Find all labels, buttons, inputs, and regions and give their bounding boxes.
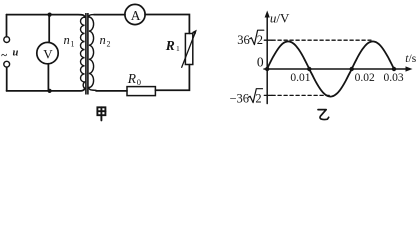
svg-text:0: 0 bbox=[137, 77, 141, 87]
wire primary left bottom bbox=[6, 67, 8, 91]
wire primary left top bbox=[6, 15, 8, 37]
svg-text:1: 1 bbox=[71, 39, 75, 48]
label -36sqrt2 bbox=[230, 89, 263, 106]
wire right side lower bbox=[155, 65, 189, 91]
wire voltmeter lower bbox=[47, 64, 49, 91]
svg-text:0.03: 0.03 bbox=[384, 72, 404, 84]
label yi (figure 2) bbox=[318, 110, 329, 120]
resistor R0 bbox=[127, 87, 155, 96]
x axis bbox=[264, 66, 413, 71]
wire secondary top right bbox=[145, 15, 189, 34]
label R0 bbox=[127, 71, 141, 87]
resistor R1 bbox=[182, 30, 197, 68]
svg-text:u/V: u/V bbox=[270, 10, 290, 25]
svg-text:−36: −36 bbox=[230, 91, 250, 105]
label 36sqrt2 bbox=[237, 30, 264, 47]
wire secondary top left bbox=[94, 14, 125, 16]
ammeter A bbox=[125, 4, 145, 24]
svg-text:u: u bbox=[13, 48, 19, 59]
terminal upper bbox=[4, 37, 10, 43]
transformer secondary coil n2 bbox=[89, 15, 96, 91]
transformer core bbox=[85, 13, 89, 95]
node t=0.01 bbox=[307, 67, 311, 71]
wire primary bottom bbox=[7, 88, 85, 91]
svg-text:0: 0 bbox=[257, 54, 264, 69]
svg-text:0.01: 0.01 bbox=[290, 72, 310, 84]
label n1 bbox=[64, 33, 75, 49]
label jia (figure 1) bbox=[97, 107, 105, 120]
svg-text:~: ~ bbox=[1, 50, 7, 62]
node origin bbox=[265, 67, 269, 71]
wire primary top bbox=[7, 15, 85, 18]
svg-text:2: 2 bbox=[255, 91, 261, 105]
wire secondary bottom bbox=[96, 90, 127, 92]
svg-text:R: R bbox=[165, 38, 175, 53]
node t=0.03 bbox=[392, 67, 396, 71]
terminal lower bbox=[4, 61, 10, 67]
svg-text:A: A bbox=[131, 8, 141, 23]
label R1 bbox=[165, 38, 180, 53]
node t=0.02 bbox=[350, 67, 354, 71]
svg-text:R: R bbox=[127, 71, 137, 86]
svg-text:2: 2 bbox=[107, 39, 111, 48]
dashed level +36sqrt2 bbox=[264, 39, 371, 41]
label n2 bbox=[100, 33, 111, 49]
svg-text:n: n bbox=[100, 33, 106, 47]
y axis bbox=[265, 11, 270, 104]
svg-text:2: 2 bbox=[257, 33, 263, 47]
svg-text:n: n bbox=[64, 33, 70, 47]
svg-text:0.02: 0.02 bbox=[355, 72, 375, 84]
transformer primary coil n1 bbox=[80, 17, 84, 88]
svg-text:36: 36 bbox=[237, 33, 250, 47]
label u/V bbox=[270, 10, 290, 25]
svg-text:t/s: t/s bbox=[405, 53, 416, 65]
sine curve u(t) bbox=[267, 41, 394, 96]
node top junction bbox=[48, 13, 52, 17]
wire voltmeter upper bbox=[48, 15, 50, 43]
dashed level -36sqrt2 bbox=[264, 94, 331, 96]
voltmeter V bbox=[37, 42, 58, 63]
label t/s bbox=[405, 53, 416, 65]
label u source bbox=[1, 48, 18, 62]
svg-text:V: V bbox=[43, 46, 53, 61]
node bottom junction bbox=[48, 89, 52, 93]
svg-text:1: 1 bbox=[176, 44, 180, 53]
